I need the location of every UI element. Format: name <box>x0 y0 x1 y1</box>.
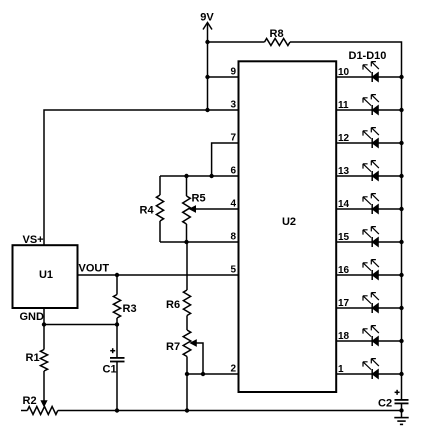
potentiometer R2 <box>21 407 58 415</box>
svg-text:R8: R8 <box>270 28 284 40</box>
svg-text:11: 11 <box>338 100 349 111</box>
pin 15 <box>338 232 350 243</box>
resistor R3 <box>113 275 120 325</box>
label C1 <box>103 364 117 376</box>
svg-text:12: 12 <box>338 133 350 144</box>
wire VS+ from pin 3 rail down to U1 <box>43 130 45 245</box>
label U1 <box>39 269 53 281</box>
wire pin 8 to R4/R5 bottoms <box>160 240 239 244</box>
svg-text:D1-D10: D1-D10 <box>349 50 387 62</box>
pin 1 <box>338 364 344 375</box>
label C2 <box>378 398 392 410</box>
pin 9 <box>230 67 236 78</box>
capacitor C1 <box>110 325 125 413</box>
wire U2 pin 1 to LED D10 <box>336 373 372 375</box>
svg-text:4: 4 <box>230 199 236 210</box>
svg-text:14: 14 <box>338 199 350 210</box>
svg-text:15: 15 <box>338 232 350 243</box>
pin 17 <box>338 298 350 309</box>
wire LED D3 to bus <box>378 141 403 145</box>
wire R8 to LED anode bus <box>290 42 402 70</box>
wire pin 4 to R5 wiper <box>190 206 239 212</box>
svg-text:VS+: VS+ <box>23 234 44 246</box>
pin 13 <box>338 166 350 177</box>
LED D8 <box>363 293 379 313</box>
svg-text:R6: R6 <box>166 299 180 311</box>
svg-text:GND: GND <box>20 311 45 323</box>
wire U2 pin 18 to LED D9 <box>336 340 372 342</box>
wire U2 pin 13 to LED D4 <box>336 175 372 177</box>
label 9V <box>200 12 214 24</box>
regulator U1 (box) <box>13 245 78 308</box>
wire 9V rail to R8 <box>208 41 265 43</box>
label VOUT <box>79 263 110 275</box>
resistor R8 <box>265 39 291 46</box>
label R7 <box>166 341 180 353</box>
wire LED D2 to bus <box>378 108 403 112</box>
svg-text:3: 3 <box>230 100 236 111</box>
potentiometer R5 <box>183 176 191 242</box>
wire U2 pin 10 to LED D1 <box>336 76 372 78</box>
wire R5 bottom to R6 top <box>186 242 188 290</box>
pin 10 <box>338 67 350 78</box>
pin 4 <box>230 199 236 210</box>
wire U2 pin 15 to LED D6 <box>336 241 372 243</box>
wire U2 pin 16 to LED D7 <box>336 274 372 276</box>
pin 11 <box>338 100 349 111</box>
pin 5 <box>230 265 236 276</box>
potentiometer R2 wiper arrow <box>41 401 47 407</box>
wire R6 to R7 <box>186 316 188 331</box>
svg-text:R5: R5 <box>192 193 206 205</box>
LED D6 <box>363 227 379 247</box>
wire LED D10 to bus <box>378 372 403 376</box>
LED D9 <box>363 326 379 346</box>
pin 7 <box>230 133 236 144</box>
pin 16 <box>338 265 350 276</box>
svg-text:6: 6 <box>230 166 236 177</box>
wire pin 9 to 9V rail <box>205 75 238 79</box>
svg-text:9: 9 <box>230 67 236 78</box>
svg-text:R1: R1 <box>26 352 40 364</box>
wire LED D8 to bus <box>378 306 403 310</box>
resistor R1 <box>40 325 47 402</box>
wire R7 wiper to pin 2 <box>191 340 204 374</box>
resistor R6 <box>183 290 190 316</box>
label R8 <box>270 28 284 40</box>
wire GND to R3 bottom <box>44 322 119 326</box>
svg-text:R3: R3 <box>123 303 137 315</box>
wire pin 5 signal from VOUT <box>78 273 239 277</box>
label R2 <box>23 395 37 407</box>
svg-text:5: 5 <box>230 265 236 276</box>
svg-text:C2: C2 <box>378 398 392 410</box>
wire U2 pin 11 to LED D2 <box>336 109 372 111</box>
wire U2 pin 17 to LED D8 <box>336 307 372 309</box>
LED D10 <box>363 359 379 379</box>
svg-text:VOUT: VOUT <box>79 263 110 275</box>
wire pin 6 to R4/R5 tops <box>160 174 239 178</box>
wire pin 3 to VS+ <box>44 108 239 130</box>
ground <box>394 418 408 425</box>
label C1 plus <box>110 348 115 353</box>
svg-text:8: 8 <box>230 232 236 243</box>
svg-text:C1: C1 <box>103 364 117 376</box>
LED D4 <box>363 161 379 181</box>
svg-text:13: 13 <box>338 166 350 177</box>
LED D1 <box>363 62 379 82</box>
svg-text:16: 16 <box>338 265 350 276</box>
label GND <box>20 311 45 323</box>
svg-text:7: 7 <box>230 133 236 144</box>
wire LED D1 to bus <box>378 75 403 79</box>
svg-text:17: 17 <box>338 298 350 309</box>
svg-text:U1: U1 <box>39 269 53 281</box>
op-amp U2 (IC box) <box>239 61 337 392</box>
wire pin 2 to R7 bottom <box>185 372 239 376</box>
LED D5 <box>363 194 379 214</box>
power symbol 9V <box>203 23 212 111</box>
resistor R4 <box>156 176 163 242</box>
pin 12 <box>338 133 350 144</box>
wire ground rail <box>58 410 402 412</box>
wire LED D4 to bus <box>378 174 403 178</box>
pin 14 <box>338 199 350 210</box>
potentiometer R7 <box>183 330 191 374</box>
wire R7 bottom to ground rail <box>185 374 189 413</box>
svg-text:2: 2 <box>230 364 236 375</box>
svg-text:U2: U2 <box>282 216 296 228</box>
svg-text:10: 10 <box>338 67 350 78</box>
label R6 <box>166 299 180 311</box>
label R1 <box>26 352 40 364</box>
node 9V/R8 junction <box>205 40 209 44</box>
LED D3 <box>363 128 379 148</box>
wire LED D5 to bus <box>378 207 403 211</box>
wire GND down from U1 <box>42 308 46 327</box>
wire LED D9 to bus <box>378 339 403 343</box>
pin 8 <box>230 232 236 243</box>
wire LED anode bus vertical <box>401 70 403 399</box>
wire LED D6 to bus <box>378 240 403 244</box>
pin 3 <box>230 100 236 111</box>
svg-text:18: 18 <box>338 331 350 342</box>
label R5 <box>192 193 206 205</box>
svg-text:1: 1 <box>338 364 344 375</box>
pin 2 <box>230 364 236 375</box>
svg-text:R2: R2 <box>23 395 37 407</box>
label D1-D10 <box>349 50 387 62</box>
wire LED D7 to bus <box>378 273 403 277</box>
wire U2 pin 14 to LED D5 <box>336 208 372 210</box>
label C2 plus <box>395 390 400 395</box>
LED D7 <box>363 260 379 280</box>
pin 18 <box>338 331 350 342</box>
svg-text:R4: R4 <box>140 205 155 217</box>
wire pin 7 jog to pin 6 <box>212 143 239 176</box>
wire U2 pin 12 to LED D3 <box>336 142 372 144</box>
svg-text:9V: 9V <box>200 12 214 24</box>
label U2 <box>282 216 296 228</box>
label R3 <box>123 303 137 315</box>
capacitor C2 <box>395 400 409 418</box>
label VS+ <box>23 234 44 246</box>
label R4 <box>140 205 155 217</box>
svg-text:R7: R7 <box>166 341 180 353</box>
pin 6 <box>230 166 236 177</box>
LED D2 <box>363 95 379 115</box>
